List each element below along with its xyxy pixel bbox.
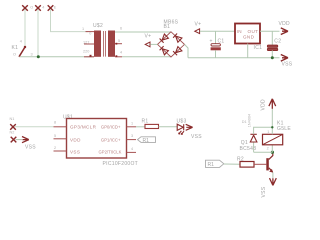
svg-text:GND: GND <box>243 35 255 40</box>
V+ supply arrow at bridge <box>145 42 150 47</box>
transformer primary winding <box>94 31 101 57</box>
svg-text:VSS: VSS <box>282 62 293 68</box>
wire R2 to Q1 base <box>254 163 266 165</box>
svg-text:N2: N2 <box>10 131 15 135</box>
junction <box>37 55 40 58</box>
svg-text:OUT: OUT <box>248 29 259 34</box>
primary tap 127 stub <box>84 43 94 45</box>
net flag R1 at pin3 <box>138 137 156 143</box>
wire pin1 to R1 <box>136 126 145 128</box>
ground rail <box>188 57 280 59</box>
svg-text:VDD: VDD <box>261 99 267 111</box>
wire V+ to bridge left <box>150 43 157 45</box>
relay coil K1 box <box>263 134 283 145</box>
wire R1 to LED <box>159 126 178 128</box>
secondary pin 4 stub <box>115 56 122 58</box>
svg-text:IN: IN <box>237 29 242 34</box>
primary tap 220 stub <box>84 56 94 58</box>
regulator IC1 box <box>235 24 260 44</box>
junction collector/coil/diode <box>271 151 274 154</box>
svg-text:1: 1 <box>82 27 84 31</box>
core line 2 <box>104 31 106 57</box>
svg-text:VDD: VDD <box>70 137 81 142</box>
LED U$3 <box>177 124 184 134</box>
svg-text:4: 4 <box>42 6 44 10</box>
svg-text:4: 4 <box>120 50 122 54</box>
VSS supply arrow at LED <box>186 124 193 130</box>
svg-text:1N4004: 1N4004 <box>247 114 251 127</box>
svg-text:R1: R1 <box>143 138 150 144</box>
diode bottom-right <box>173 47 182 56</box>
diode top-left <box>160 34 169 43</box>
wire D1 cathode up and right <box>254 127 273 134</box>
svg-text:N1: N1 <box>10 117 15 121</box>
C2 plate 2 <box>267 48 277 50</box>
pin 5 square <box>116 43 118 45</box>
junction coil/diode top <box>271 126 273 128</box>
secondary top pin wire to bridge <box>115 31 171 33</box>
svg-text:U$2: U$2 <box>93 23 103 29</box>
svg-text:O: O <box>13 53 16 57</box>
svg-text:4: 4 <box>131 147 133 151</box>
svg-text:VSS: VSS <box>70 149 80 154</box>
C1 bottom wire <box>215 50 217 58</box>
wire N1 to PIC pin 8 <box>15 126 54 128</box>
net flag R1 to R2 <box>206 160 224 167</box>
switch K1 lever <box>19 47 25 57</box>
svg-text:B1: B1 <box>164 24 171 30</box>
svg-text:VSS: VSS <box>25 144 36 150</box>
core line 1 <box>102 31 104 57</box>
svg-text:E: E <box>54 6 57 10</box>
svg-text:3: 3 <box>31 52 33 56</box>
svg-text:1: 1 <box>131 121 133 125</box>
pin 8 stub <box>54 126 67 128</box>
svg-text:R1: R1 <box>142 119 149 125</box>
svg-text:PIC10F200OT: PIC10F200OT <box>103 161 139 167</box>
pin 2 stub <box>54 150 67 152</box>
regulator GND drop <box>247 44 249 58</box>
emitter wire down <box>272 172 274 178</box>
wire D1 anode down <box>253 142 255 152</box>
PIC box <box>67 119 127 159</box>
Q1 emitter <box>269 168 273 172</box>
svg-text:VSS: VSS <box>191 134 202 140</box>
svg-text:C2: C2 <box>274 39 281 45</box>
connector pin X1-2 <box>35 5 41 11</box>
C2 bottom wire <box>271 50 273 57</box>
svg-text:2: 2 <box>54 146 56 150</box>
diode bottom-left <box>160 46 169 55</box>
wire X1-3 down and right to transformer tap 0 <box>51 9 89 32</box>
svg-text:2: 2 <box>267 146 269 150</box>
bridge right corner drop <box>185 44 189 57</box>
svg-text:6: 6 <box>120 27 122 31</box>
wire X1-2 down to junction <box>37 9 39 57</box>
C1 negative plate <box>211 47 221 50</box>
svg-text:R1: R1 <box>208 162 215 168</box>
svg-text:V+: V+ <box>195 22 202 28</box>
wire N2 to VSS <box>16 139 23 141</box>
C2 plate 1 <box>267 45 277 47</box>
transformer secondary winding <box>108 31 115 57</box>
Q1 collector <box>269 153 273 160</box>
switch contact dot <box>24 46 26 48</box>
svg-text:O: O <box>30 6 33 10</box>
VSS supply arrow at N2 <box>22 137 29 143</box>
svg-text:V+: V+ <box>145 34 152 40</box>
VDD supply arrow up <box>269 99 276 109</box>
wire secondary pin4 to bridge bottom <box>122 56 171 58</box>
C1 top wire <box>215 31 217 43</box>
svg-text:D1: D1 <box>242 120 247 124</box>
tap 220 connect square <box>90 55 92 57</box>
svg-text:VSS: VSS <box>261 186 267 197</box>
pin 5 stub <box>54 138 67 140</box>
VSS supply arrow down <box>270 178 277 185</box>
pin 3 stub <box>127 139 137 141</box>
V+ supply arrow at regulator input <box>195 29 200 34</box>
svg-text:8: 8 <box>54 120 56 124</box>
svg-text:5: 5 <box>54 134 56 138</box>
bridge outline <box>158 32 185 57</box>
connector pin X1-3 <box>48 5 54 11</box>
wire V+ to regulator IN <box>200 30 235 32</box>
svg-text:127: 127 <box>83 40 89 44</box>
C2 top wire <box>271 31 273 45</box>
resistor R2 <box>240 162 254 168</box>
diode top-right <box>173 34 182 43</box>
VDD supply arrow <box>281 28 288 35</box>
resistor R1 <box>145 124 159 128</box>
svg-text:0: 0 <box>89 32 91 36</box>
diode D1 <box>250 134 257 142</box>
svg-text:VDD: VDD <box>279 21 291 27</box>
svg-text:K1: K1 <box>12 45 19 51</box>
wire switch to transformer tap 220 <box>20 56 95 58</box>
svg-text:GP3/MCLR: GP3/MCLR <box>70 125 97 130</box>
wire junction to D1 <box>254 151 273 153</box>
pin 4 square <box>116 55 118 57</box>
relay coil diagonal <box>263 135 282 145</box>
X marker N2 <box>11 137 17 143</box>
relay coil pin2 wire <box>271 145 273 152</box>
svg-text:4: 4 <box>20 40 22 44</box>
transistor Q1 base bar <box>266 158 269 170</box>
VSS supply arrow <box>281 55 288 62</box>
wire coil pin1 to VDD <box>271 109 273 135</box>
svg-text:GP1/ICC+: GP1/ICC+ <box>101 137 121 142</box>
primary tap 0 stub <box>86 31 95 33</box>
C1 positive plate <box>211 44 220 46</box>
junction at C2 bottom <box>271 56 274 59</box>
svg-text:G5LE: G5LE <box>277 126 291 132</box>
svg-text:GP2/T0CLK: GP2/T0CLK <box>98 149 121 154</box>
svg-text:Q1: Q1 <box>241 140 248 146</box>
wire X1-1 down to switch <box>24 9 26 47</box>
wire flag to R2 <box>224 163 240 165</box>
regulator OUT wire <box>260 30 280 32</box>
svg-text:220: 220 <box>83 50 89 54</box>
pin 1 stub <box>127 126 137 128</box>
pin 4 stub <box>127 151 137 153</box>
svg-text:1: 1 <box>267 130 269 134</box>
svg-text:U$3: U$3 <box>177 118 187 124</box>
svg-text:U$1: U$1 <box>63 114 73 120</box>
connector pin X1-1 <box>22 5 28 11</box>
secondary pin 5 stub <box>115 43 122 45</box>
Q1 emitter arrowhead <box>269 169 273 173</box>
svg-text:3: 3 <box>131 134 133 138</box>
X marker N1 <box>10 124 16 130</box>
svg-text:5: 5 <box>118 39 120 43</box>
svg-text:IC1: IC1 <box>254 45 263 51</box>
svg-text:GP0/ICD+: GP0/ICD+ <box>101 125 121 130</box>
